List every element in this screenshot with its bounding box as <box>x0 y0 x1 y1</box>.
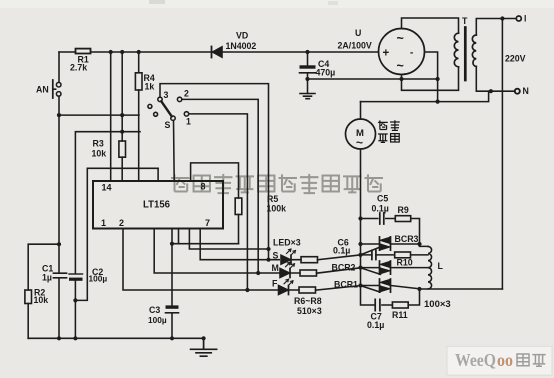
svg-text:oo: oo <box>497 350 513 370</box>
switch common S contact <box>171 116 175 120</box>
wire: H4 motor top feed y101.6 <box>361 91 489 101</box>
capacitor C4 top lead <box>307 52 309 66</box>
triac BCR3 <box>361 243 420 245</box>
node dot merge x75.4 y300.4 <box>73 298 77 302</box>
svg-text:LT156: LT156 <box>143 199 170 211</box>
svg-text:10k: 10k <box>34 295 49 305</box>
node dot AN-rail <box>57 113 61 117</box>
svg-text:1: 1 <box>186 117 191 127</box>
svg-text:14: 14 <box>102 183 112 193</box>
node dot M row x258.2 <box>256 271 260 275</box>
svg-text:1k: 1k <box>145 82 155 92</box>
wire: C4 bottom lead <box>307 73 309 94</box>
node dot x419.5 y289 <box>417 287 421 291</box>
wire: S gate diagonal to BCR3 <box>361 247 380 255</box>
wire: secondary bottom to terminal N <box>476 67 515 92</box>
node dot x122.2 y115 <box>120 113 124 117</box>
resistor R7 <box>300 270 317 276</box>
wire: M gate diagonal to BCR2 <box>361 268 381 275</box>
wire: secondary top to terminal L <box>476 19 516 36</box>
resistor R3 <box>119 141 126 157</box>
wire: R5 bottom lead <box>238 215 240 244</box>
bridge rectifier U circle <box>379 29 425 75</box>
transformer T right winding <box>472 35 476 67</box>
svg-text:3: 3 <box>164 90 169 100</box>
svg-text:10k: 10k <box>92 149 107 159</box>
node dot top rail x110.7 <box>109 50 113 54</box>
wire: IC pin down through C3 to ground rail <box>171 229 173 339</box>
wire: bridge right to V1 down <box>425 52 438 102</box>
svg-text:S: S <box>273 251 279 261</box>
svg-text:S: S <box>165 120 171 130</box>
wire: mains live vertical x502.4 <box>501 19 503 290</box>
wire: R2 branch <box>28 244 59 338</box>
node dot ground rail C1 <box>57 336 61 340</box>
svg-text:VD: VD <box>236 31 248 41</box>
switch spare contact a <box>148 104 152 108</box>
svg-text:R3: R3 <box>93 139 104 149</box>
wire: bracket y=168.3 to C2 bottom branch <box>75 168 158 300</box>
resistor R10 <box>395 252 411 258</box>
svg-text:AN: AN <box>36 85 49 95</box>
LED F triangle <box>279 286 289 295</box>
node dot R3 top y131.7 <box>120 130 124 134</box>
LED S arrows <box>287 249 296 255</box>
wire: top rail y=52 <box>59 51 379 53</box>
svg-text:+: + <box>383 48 390 60</box>
wire: AN node horizontal y=115 <box>59 114 139 116</box>
svg-text:R10: R10 <box>397 258 413 268</box>
wire: bridge top to transformer primary top <box>402 18 459 33</box>
svg-text:R6~R8: R6~R8 <box>294 296 322 306</box>
top light strip <box>0 0 554 8</box>
resistor R5 <box>235 198 242 215</box>
capacitor C1 plates <box>54 273 67 278</box>
motor M circle <box>346 119 376 149</box>
capacitor C7 plates <box>375 299 380 310</box>
IC LT156 body <box>93 181 223 229</box>
wire: IC top pin to R5 bracket <box>191 163 239 198</box>
capacitor C5 plates <box>380 213 384 224</box>
LED M triangle <box>280 269 290 278</box>
node dot V1-H4 <box>436 100 440 104</box>
svg-text:U: U <box>355 28 361 38</box>
svg-text:8: 8 <box>201 182 206 192</box>
svg-text:100k: 100k <box>267 204 287 214</box>
switch arm <box>161 101 171 116</box>
node dot ground stub <box>202 336 206 340</box>
wire: IC pin stub x178.5 <box>178 229 180 244</box>
wire: vertical x=110.7 top rail to IC pin 14 <box>110 52 112 181</box>
svg-text:L: L <box>438 261 444 271</box>
svg-text:-: - <box>410 48 413 59</box>
svg-text:~: ~ <box>397 32 404 46</box>
wire: contact 1 to x247.4 down to F row <box>189 114 248 290</box>
wire: IC pin2 down to F row <box>123 229 278 291</box>
wire: R4 bottom lead to IC <box>138 90 140 181</box>
node dot S row x268.5 <box>266 258 270 262</box>
svg-text:100×3: 100×3 <box>424 299 451 310</box>
LED M arrows <box>286 262 295 268</box>
pushbutton AN <box>56 82 61 87</box>
resistor R8 <box>299 287 316 293</box>
switch contact 1 <box>184 112 188 116</box>
node dot rail C6 <box>358 253 362 257</box>
wire: bracket y=131.7 to C2 branch <box>75 132 140 339</box>
faint smudge top center <box>149 0 165 4</box>
svg-text:470µ: 470µ <box>316 68 336 78</box>
wire: IC pin x189.4 to S feed y249 <box>189 229 268 250</box>
node dot N junction <box>489 89 493 93</box>
triac BCR1 <box>361 286 420 289</box>
ground symbol <box>191 338 217 356</box>
wire: H_a y243.7 <box>172 243 239 245</box>
faint smudge top center 2 <box>328 1 338 5</box>
svg-text:BCR2: BCR2 <box>332 263 356 273</box>
svg-text:LED×3: LED×3 <box>273 238 301 248</box>
switch S contact 3 stub and wire to x268.5 <box>160 84 269 249</box>
svg-text:2A/100V: 2A/100V <box>338 41 372 51</box>
svg-text:100µ: 100µ <box>89 273 108 283</box>
svg-text:0.1µ: 0.1µ <box>372 204 389 214</box>
node dot C4 top <box>305 50 309 54</box>
svg-text:M: M <box>272 263 279 273</box>
wire: x268.5 down joins S row <box>268 249 270 260</box>
svg-text:R5: R5 <box>267 194 278 204</box>
wire: C6 row y254.9 <box>361 254 429 256</box>
svg-text:7: 7 <box>205 218 210 228</box>
wire: motor bottom rail x360.5 <box>361 149 375 305</box>
node dot H1-bridge <box>399 77 403 81</box>
capacitor C4 plates <box>300 65 316 68</box>
resistor R2 <box>25 290 32 304</box>
node dot x419.5 y244 <box>417 242 421 246</box>
node dot rail C5 <box>358 216 362 220</box>
svg-text:C3: C3 <box>149 305 160 315</box>
fan motor CJK label 风扇 电机 <box>378 120 400 143</box>
watermark 杭州将睿科技有限公司 (simulated CJK strokes) <box>171 174 383 194</box>
node dot ground rail C2 <box>73 336 77 340</box>
transformer T left winding <box>454 33 458 67</box>
wire: bridge bottom jog and primary bottom loop <box>402 67 459 91</box>
LED F arrows <box>284 279 293 285</box>
LED F row <box>289 286 361 291</box>
triac BCR2 <box>361 267 429 269</box>
svg-text:C5: C5 <box>377 194 388 204</box>
svg-text:100µ: 100µ <box>148 315 167 325</box>
wire: motor top lead <box>360 102 362 119</box>
resistor R1 <box>76 49 91 54</box>
wire: IC pin down to M row <box>154 229 279 274</box>
node dot ground rail C3 <box>170 336 174 340</box>
resistor R6 <box>301 257 318 263</box>
svg-text:R9: R9 <box>398 205 409 215</box>
node dot H1-V1 <box>436 77 440 81</box>
svg-text:T: T <box>462 16 468 26</box>
svg-text:2: 2 <box>184 89 189 99</box>
svg-text:F: F <box>272 279 278 289</box>
svg-text:510×3: 510×3 <box>297 306 322 316</box>
resistor R4 <box>135 73 142 90</box>
switch spare contact b <box>154 112 158 116</box>
wire: C5 snubber row y218.5 <box>361 219 429 247</box>
wire: stub x158.1 to IC top <box>157 168 159 181</box>
wire: S common down to IC <box>173 120 176 181</box>
wire: R4 top lead <box>138 52 140 73</box>
node dot L feed <box>500 16 504 20</box>
node dot rail y244.2 <box>57 242 61 246</box>
wire: vertical x=122.2 top rail through R3 to IC <box>121 52 123 181</box>
svg-text:~: ~ <box>397 59 404 73</box>
capacitor C6 plates <box>372 250 376 259</box>
wire: left rail x=59 <box>58 52 60 338</box>
LED M row <box>291 268 361 273</box>
LED S row <box>292 255 361 260</box>
capacitor C3 plates <box>166 305 179 308</box>
svg-text:WeeQ: WeeQ <box>455 350 496 370</box>
diode VD <box>211 47 213 58</box>
inductor L tapped coil <box>428 246 432 289</box>
wire: ground rail y338.3 <box>28 337 203 339</box>
node dot R4 top <box>137 50 141 54</box>
svg-text:l: l <box>524 14 526 24</box>
WeeQoo CJK 维库 <box>517 354 546 367</box>
svg-text:BCR1: BCR1 <box>334 280 358 290</box>
svg-text:N: N <box>523 86 529 96</box>
resistor R11 <box>392 302 408 308</box>
wire: load line y289 to mains live <box>420 288 503 290</box>
wire: H1 y=79 C4 to V1 <box>308 78 438 80</box>
resistor R9 <box>395 216 410 222</box>
svg-text:~: ~ <box>356 136 363 150</box>
svg-text:R11: R11 <box>392 310 408 320</box>
svg-text:0.1µ: 0.1µ <box>333 245 350 255</box>
svg-text:1N4002: 1N4002 <box>226 41 257 51</box>
wire: IC pin7 down to S row <box>200 229 279 260</box>
node dot top rail x122.2 <box>120 50 124 54</box>
svg-text:2: 2 <box>119 218 124 228</box>
svg-text:1µ: 1µ <box>42 272 52 282</box>
ground under C4 <box>300 94 315 99</box>
node dot x172 y243.7 <box>170 242 174 246</box>
WeeQoo watermark box <box>447 346 552 375</box>
svg-text:2.7k: 2.7k <box>70 63 87 73</box>
svg-text:1: 1 <box>101 218 106 228</box>
terminal L circle <box>516 16 521 21</box>
wire: F gate diagonal to BCR1 <box>361 286 381 292</box>
switch contact 2 <box>177 97 181 101</box>
switch contact 3 <box>158 97 162 101</box>
svg-text:0.1µ: 0.1µ <box>367 320 384 330</box>
LED S triangle <box>281 255 291 264</box>
terminal N circle <box>515 89 520 94</box>
node dot C4-H1 <box>305 77 309 81</box>
transformer T core <box>464 28 467 81</box>
svg-text:BCR3: BCR3 <box>395 234 419 244</box>
svg-text:220V: 220V <box>505 54 526 64</box>
node dot x268.5 y249 <box>266 247 270 251</box>
wire: contact 2 to x258.2 down to M row <box>182 99 258 273</box>
node dot F row x247.4 <box>245 288 249 292</box>
capacitor C2 plates <box>69 273 83 275</box>
wire: C7 snubber row y305 <box>382 289 420 305</box>
